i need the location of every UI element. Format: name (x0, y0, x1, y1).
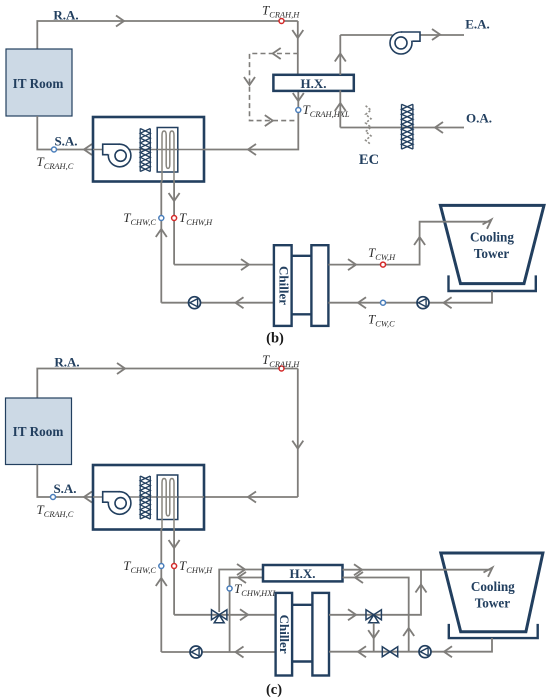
CRAH unit box (c) (93, 465, 204, 530)
svg-text:Chiller: Chiller (277, 266, 292, 305)
sensor T_CHW,HXL blue node (c) (227, 586, 232, 591)
CRAH unit box (b) (93, 117, 204, 182)
chiller condenser shell (b) (311, 245, 328, 326)
arrow into tower inlet (c) (484, 568, 493, 577)
filter outdoor air filter (b) (402, 104, 413, 149)
pipe H.X. left outlet to return (c) (230, 578, 263, 653)
sensor T_CHW,H red node (c) (172, 564, 177, 569)
arrow chw supply down (c) (169, 540, 180, 548)
svg-text:TCHW,H: TCHW,H (179, 210, 213, 227)
fan exhaust fan (b) (390, 32, 420, 54)
heat exchanger H.X. box (c) (263, 565, 343, 581)
fan CRAH supply fan (c) (103, 492, 131, 515)
cooling tower basin (c) (449, 624, 538, 638)
svg-text:TCHW,C: TCHW,C (123, 558, 156, 575)
svg-text:TCW,C: TCW,C (368, 312, 395, 329)
pipe chw return from chiller (c) (161, 651, 275, 653)
svg-text:S.A.: S.A. (54, 134, 77, 149)
svg-text:R.A.: R.A. (54, 355, 79, 370)
arrow chw return left (c) (236, 647, 244, 658)
wire return air to CRAH (c) (204, 496, 298, 498)
cooling tower basin (b) (449, 275, 536, 291)
pipe chilled water supply riser (b) (173, 182, 175, 265)
arrow into tower inlet (b) (483, 220, 492, 229)
wire air line over coil (c) (157, 496, 178, 498)
svg-text:TCHW,H: TCHW,H (179, 558, 213, 575)
damper bypass dashed duct (b) (250, 54, 299, 121)
chiller condenser shell (c) (312, 593, 329, 676)
svg-text:EC: EC (359, 152, 379, 168)
sensor T_CHW,C blue node (b) (159, 216, 164, 221)
svg-text:Chiller: Chiller (277, 615, 292, 654)
coil serpentine tubes (c) (162, 479, 174, 530)
pipe condenser supply to tower (b) (328, 222, 491, 265)
arrow into H.X. left top (c) (237, 564, 245, 575)
arrow out of H.X. left bottom (c) (238, 572, 246, 583)
svg-text:TCRAH,C: TCRAH,C (37, 154, 74, 171)
wire E.A. duct (b) (340, 34, 464, 36)
pipe chilled water return riser (c) (160, 529, 162, 652)
coil serpentine tubes (b) (162, 131, 174, 182)
arrow cond return left near chiller (b) (358, 297, 366, 308)
pipe chilled water supply riser (c) (173, 529, 175, 615)
arrow down above H.X. (b) (292, 30, 303, 38)
svg-text:TCRAH,HXL: TCRAH,HXL (303, 102, 350, 119)
cooling tower shell (c) (441, 553, 543, 632)
IT Room box (b) (6, 49, 72, 116)
chiller lower crossover bar (b) (292, 313, 312, 315)
pipe valve top branch to H.X. (c) (219, 570, 263, 613)
cooling tower shell (b) (440, 205, 544, 283)
pipe chw supply to chiller (b) (174, 264, 274, 266)
svg-text:Cooling: Cooling (470, 230, 514, 245)
arrow chw return left (b) (236, 297, 244, 308)
sensor T_CHW,C blue node (c) (159, 564, 164, 569)
fan CRAH supply fan (b) (103, 144, 131, 167)
pipe tower water to H.X. right (c) (343, 578, 409, 653)
arrow H.X. out right (c) (354, 564, 362, 575)
pipe chw supply to chiller via valve (c) (174, 614, 275, 616)
arrow bypass bottom right (b) (265, 115, 273, 126)
svg-text:IT Room: IT Room (13, 76, 64, 91)
svg-text:TCW,H: TCW,H (368, 245, 396, 262)
arrow S.A. flow left (b) (84, 144, 92, 155)
wire S.A. duct (b) (37, 116, 93, 150)
chiller evaporator shell (c) (276, 593, 293, 676)
pipe chw return from chiller (b) (161, 302, 274, 304)
wire air path through CRAH (b) (93, 149, 204, 151)
arrow cond return left near tower (b) (444, 297, 452, 308)
chiller upper crossover bar (c) (292, 604, 312, 606)
arrow tower water up (c) (403, 628, 414, 636)
arrow bypass down (c) (368, 630, 379, 638)
coil CRAH cooling coil box (b) (157, 128, 178, 173)
wire hot air drop into H.X. (b) (297, 21, 299, 75)
svg-text:TCRAH,H: TCRAH,H (262, 3, 300, 20)
wire air line over coil (b) (157, 149, 178, 151)
pump condenser water pump (b) (417, 297, 429, 309)
heat exchanger H.X. box (b) (273, 75, 353, 91)
pump condenser water pump (c) (419, 646, 431, 658)
arrow riser up (c) (416, 585, 427, 593)
IT Room box (c) (6, 398, 72, 465)
sensor T_CRAH,H red node (c) (279, 366, 284, 371)
FIGURE C GROUP (6, 352, 543, 698)
coil CRAH cooling coil box (c) (157, 475, 178, 520)
svg-text:R.A.: R.A. (53, 8, 78, 23)
arrow chw supply down (b) (169, 193, 180, 201)
wire hot air drop (c) (297, 369, 299, 498)
sensor T_CRAH,H red node (b) (279, 19, 284, 24)
sensor T_CHW,H red node (b) (172, 216, 177, 221)
pump chilled water pump (c) (190, 646, 202, 658)
arrow condenser out right (c) (348, 609, 356, 620)
pump chilled water pump (b) (189, 297, 201, 309)
arrow R.A. flow right (b) (116, 16, 124, 27)
arrow cond return left near chiller (c) (358, 646, 366, 657)
sensor T_CW,C blue node (b) (381, 300, 386, 305)
arrow O.A. flow left (b) (435, 122, 443, 133)
arrow into H.X. right bottom (c) (355, 572, 363, 583)
arrow down right side (c) (292, 441, 303, 449)
arrow chw supply right (c) (240, 609, 248, 620)
svg-text:Cooling: Cooling (471, 579, 515, 594)
arrow S.A. flow left (c) (84, 492, 92, 503)
arrow bypass top left (b) (273, 48, 281, 59)
arrow bypass down (b) (244, 77, 255, 85)
svg-text:IT Room: IT Room (13, 424, 64, 439)
svg-text:Tower: Tower (475, 596, 511, 611)
svg-text:O.A.: O.A. (466, 111, 492, 126)
arrow chw return up (c) (156, 578, 167, 586)
svg-text:TCRAH,C: TCRAH,C (37, 502, 74, 519)
svg-text:E.A.: E.A. (465, 17, 490, 32)
valve three-way chilled water (c) (212, 610, 227, 623)
svg-text:S.A.: S.A. (53, 481, 76, 496)
wire outdoor air riser to E.A. (b) (339, 35, 341, 128)
filter CRAH filter (b) (140, 129, 150, 172)
wire R.A. duct (b) (37, 21, 298, 49)
arrow into CRAH left (b) (248, 144, 256, 155)
arrow down below H.X. (b) (293, 93, 304, 101)
arrow chw supply right (b) (241, 259, 249, 270)
svg-text:(b): (b) (266, 331, 284, 347)
svg-text:TCHW,HXL: TCHW,HXL (234, 581, 277, 598)
arrow chw return up (b) (156, 229, 167, 237)
FIGURE B GROUP (6, 3, 544, 347)
wire R.A. duct (c) (37, 369, 298, 399)
arrow E.A. flow right (b) (432, 29, 440, 40)
arrow cond return left near tower (c) (444, 646, 452, 657)
pipe chilled water return riser (b) (160, 182, 162, 303)
svg-text:H.X.: H.X. (290, 566, 316, 581)
pipe H.X. right outlet to tower (c) (343, 569, 491, 571)
filter CRAH filter (c) (140, 476, 150, 519)
chiller lower crossover bar (c) (292, 660, 312, 662)
sensor T_CRAH,HXL blue node (b) (296, 108, 301, 113)
pipe valve bypass down leg (c) (373, 623, 375, 652)
arrow up to E.A. (b) (335, 54, 346, 62)
arrow condenser out right (b) (348, 259, 356, 270)
chiller upper crossover bar (b) (292, 255, 312, 257)
evaporative cooler EC dashed media (b) (366, 106, 371, 145)
svg-text:(c): (c) (266, 682, 282, 698)
sensor T_CRAH,C blue node (b) (52, 147, 57, 152)
valve two-way condenser return (c) (382, 647, 397, 657)
arrow riser up (b) (414, 237, 425, 245)
pipe condenser return from tower (b) (328, 291, 492, 303)
svg-text:TCRAH,H: TCRAH,H (262, 352, 300, 369)
pipe condenser supply to tower (c) (329, 570, 421, 615)
chiller evaporator shell (b) (274, 245, 292, 326)
pipe condenser return from tower (c) (329, 638, 492, 652)
wire S.A. duct (c) (37, 465, 93, 498)
arrow up below H.X. right (b) (335, 103, 346, 111)
svg-text:Tower: Tower (474, 246, 510, 261)
svg-text:H.X.: H.X. (301, 76, 327, 91)
wire air path through CRAH (c) (93, 496, 204, 498)
svg-text:TCHW,C: TCHW,C (123, 210, 156, 227)
sensor T_CW,H red node (b) (381, 262, 386, 267)
wire return air from H.X. to CRAH (b) (204, 90, 298, 149)
wire O.A. duct (b) (340, 127, 464, 129)
arrow R.A. flow right (c) (117, 363, 125, 374)
sensor T_CRAH,C blue node (c) (51, 495, 56, 500)
arrow into CRAH left (c) (248, 492, 256, 503)
valve three-way condenser bypass (c) (366, 610, 381, 623)
